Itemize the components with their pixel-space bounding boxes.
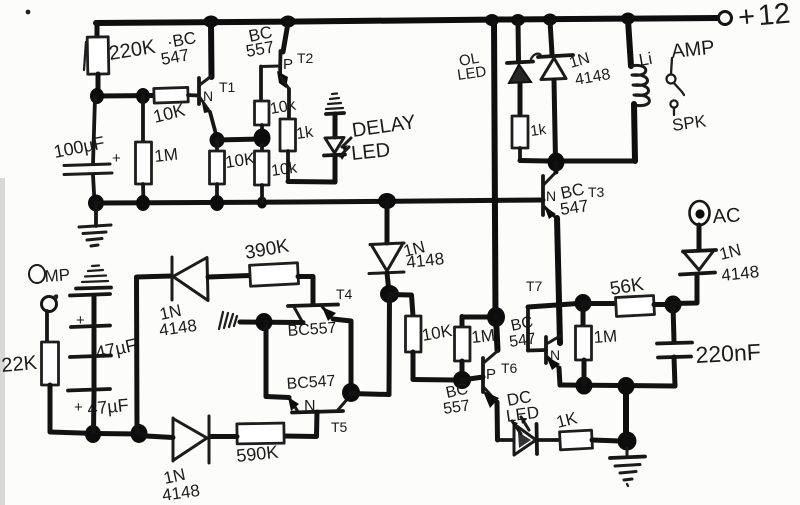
resistor 1K (DC LED): [560, 430, 593, 450]
transistor T2 BC557: [283, 23, 288, 52]
hatch antenna above caps: [92, 264, 99, 267]
transistor T4 BC557: [288, 305, 338, 307]
scan speck top-left: [26, 10, 31, 15]
svg-text:AC: AC: [712, 205, 741, 228]
ground (left): [88, 195, 104, 212]
transistor T5 BC547: [289, 398, 297, 410]
+12 terminal: [719, 12, 732, 25]
resistor 10K (T1 base, horizontal): [154, 87, 188, 103]
svg-text:T4: T4: [336, 286, 353, 302]
rail junction node dots: [204, 16, 219, 28]
svg-text:T5: T5: [331, 419, 348, 435]
svg-text:AMP: AMP: [670, 37, 715, 63]
svg-text:N: N: [304, 398, 316, 415]
svg-text:P: P: [283, 56, 293, 73]
svg-text:1M: 1M: [593, 326, 618, 347]
resistor 10K (T6 branch): [406, 316, 422, 352]
wire T6 emitter to DC LED: [495, 402, 501, 440]
junction blob T6 base: [453, 371, 471, 389]
LED DC symbol: [514, 424, 536, 455]
wire T3 emitter down to T7: [557, 218, 560, 343]
resistor 10k (T2 base upper): [255, 101, 270, 125]
resistor 1k (OL branch): [512, 116, 528, 148]
LED DELAY symbol: [325, 138, 344, 154]
junction blob: [254, 129, 271, 148]
long node wire y203 to T3 base: [96, 200, 543, 203]
T2 base wire: [261, 65, 280, 69]
svg-text:T1: T1: [219, 79, 236, 95]
svg-text:4148: 4148: [405, 249, 445, 272]
node blob below diode: [387, 273, 389, 292]
terminal AC: [690, 201, 710, 225]
node wire y161: [548, 159, 635, 164]
resistor 1M (T7 collector load): [581, 303, 586, 326]
svg-text:+: +: [74, 399, 83, 416]
transistor T6 BC557: [496, 318, 498, 350]
node junction y201 at x387: [378, 193, 396, 209]
bottom node wire: [96, 431, 145, 437]
switch arm (relay contact) to AMP: [671, 58, 672, 74]
diode 1N4148 (lower, pointing right): [172, 418, 175, 461]
resistor 1M (T6 base): [460, 317, 465, 328]
svg-text:N: N: [203, 88, 213, 104]
diode 1N4148 (mid, pointing down): [385, 201, 390, 243]
node dot T7/1M/56K: [575, 294, 592, 312]
svg-text:P: P: [486, 366, 496, 383]
wire caps node up right side: [137, 276, 172, 432]
capacitor 470uF: [70, 356, 111, 358]
+12 rail wire: [96, 18, 717, 23]
ground (right): [626, 448, 629, 455]
svg-text:N: N: [546, 188, 556, 204]
resistor 22K: [42, 342, 59, 385]
capacitor 100uF: [93, 98, 95, 164]
inductor Li (relay coil): [628, 20, 631, 66]
T7 base wire loop: [528, 348, 546, 352]
svg-text:1k: 1k: [529, 121, 548, 140]
AMP label (mic input): [29, 265, 45, 283]
svg-text:1k: 1k: [295, 124, 315, 143]
wire to 10K: [390, 292, 411, 298]
svg-text:547: 547: [559, 196, 590, 219]
LED OL branch wire: [516, 21, 522, 61]
T4/T5 junction blob: [342, 383, 360, 402]
scan smudge left edge: [0, 178, 5, 505]
resistor 56K: [583, 301, 616, 306]
resistor 10k (lower): [260, 145, 264, 151]
node dot 56K/diode/cap: [665, 296, 682, 314]
svg-text:MP: MP: [44, 265, 71, 286]
svg-text:1M: 1M: [470, 326, 495, 347]
T5 base lead: [284, 412, 317, 437]
wire to mid diode column: [351, 394, 389, 395]
transistor T1 BC547: [197, 78, 201, 104]
svg-text:T2: T2: [297, 50, 314, 66]
resistor 390K: [250, 263, 299, 286]
T4 collector wire down: [333, 319, 351, 388]
wire up to AC diode: [673, 276, 697, 304]
wire node to T5: [264, 322, 269, 397]
SPK terminal: [670, 100, 677, 107]
node wire y140 (T1 emitter to 10k junction): [210, 132, 225, 148]
LED OL symbol (filled): [507, 62, 533, 64]
wire 1k to DELAY LED: [286, 151, 290, 181]
diode 1N4148 (upper, pointing left): [171, 257, 174, 300]
capacitor 47uF: [70, 294, 110, 296]
wire LED to 1K: [537, 438, 560, 442]
T2 emitter arrow blob: [277, 71, 288, 88]
resistor 590K: [237, 423, 284, 444]
svg-text:1M: 1M: [153, 145, 178, 166]
svg-text:22K: 22K: [1, 352, 39, 377]
node wire y386: [560, 385, 675, 386]
svg-text:T6: T6: [501, 360, 518, 376]
terminal mic: [42, 297, 57, 312]
long vertical wire x495 (rail to T6): [494, 21, 496, 317]
svg-text:+: +: [112, 150, 121, 167]
DELAY LED hatch antenna: [332, 92, 337, 95]
junction blob at ground: [618, 432, 637, 451]
svg-text:LED: LED: [350, 139, 391, 165]
capacitor 220nF: [673, 305, 674, 341]
resistor 220K: [95, 23, 100, 37]
svg-text:N: N: [550, 347, 560, 363]
node wire y96: [97, 93, 154, 99]
resistor 10K (below T1 emitter): [215, 141, 219, 151]
resistor 1M: [141, 96, 145, 142]
svg-text:BC547: BC547: [286, 373, 336, 393]
wire up to y386 node: [623, 386, 629, 441]
wire LED to 1k: [518, 84, 523, 116]
diode 1N4148 (AC input, pointing down): [680, 273, 715, 275]
svg-text:T7: T7: [526, 278, 543, 294]
transistor T3 BC547: [541, 176, 545, 215]
transistor T7 BC547: [544, 337, 548, 363]
diode 1N4148 (relay clamp): [550, 21, 552, 54]
svg-text:4148: 4148: [720, 262, 760, 285]
svg-text:T3: T3: [588, 184, 605, 200]
wire 1M top to x495 node: [462, 315, 490, 320]
svg-text:+12: +12: [737, 0, 792, 34]
resistor 1k (T2 collector): [280, 119, 296, 151]
T4 emitter wire + input hatch: [240, 320, 303, 326]
svg-text:220nF: 220nF: [695, 339, 761, 368]
